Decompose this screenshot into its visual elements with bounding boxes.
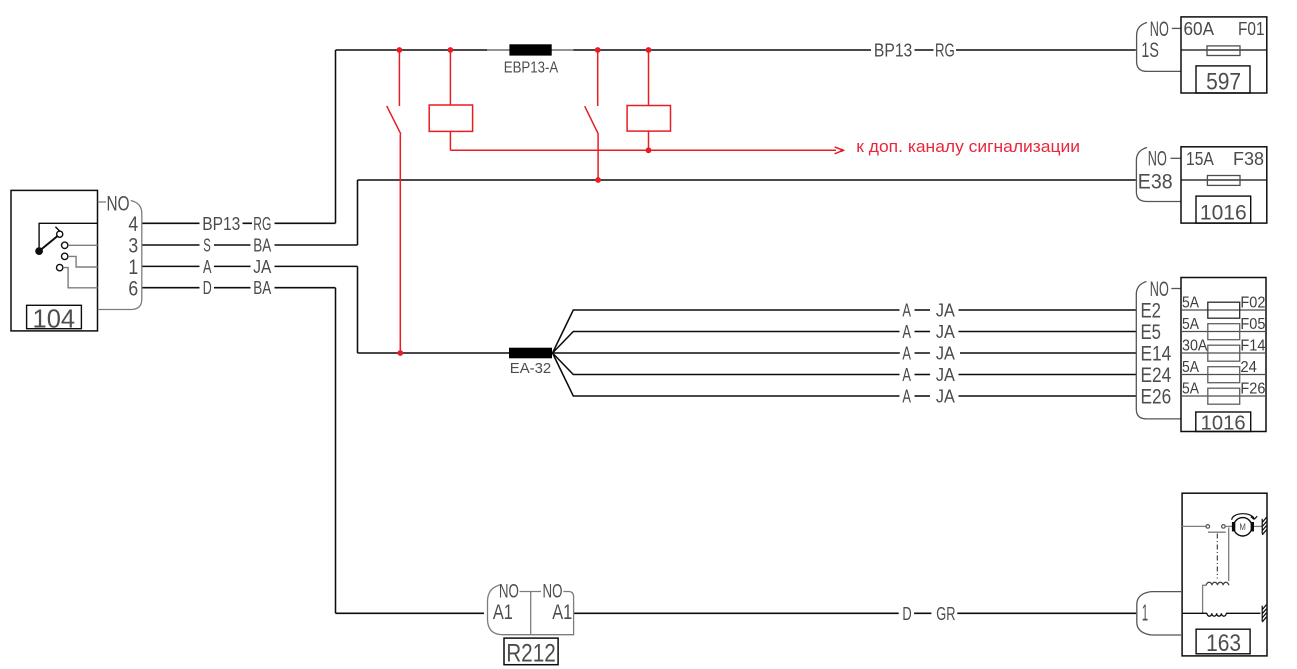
svg-text:JA: JA xyxy=(936,322,955,342)
connector NO of 104 xyxy=(98,193,142,310)
svg-text:JA: JA xyxy=(936,301,955,321)
motor brush right xyxy=(1251,522,1254,531)
junction dots red on top feed xyxy=(397,47,844,356)
arrow tip dot xyxy=(840,149,843,152)
svg-text:E2: E2 xyxy=(1141,300,1162,323)
fuse ratings xyxy=(1182,294,1208,397)
wire red bus to alarm channel xyxy=(450,149,836,151)
switch blade xyxy=(39,236,58,252)
wire fan E2 xyxy=(553,310,1137,353)
switch striker tick xyxy=(55,227,60,232)
thermal contact bar xyxy=(1208,531,1226,533)
feed wire to contact xyxy=(1182,525,1206,527)
connector pair R212 xyxy=(488,581,574,668)
elbow wire contact to row1 xyxy=(68,256,98,267)
svg-text:JA: JA xyxy=(253,257,271,277)
relay coil 2 box xyxy=(627,106,670,132)
coil link down xyxy=(1203,585,1207,613)
svg-text:JA: JA xyxy=(936,387,955,407)
fusebox 1016 (five fuses) xyxy=(1181,278,1266,435)
wire D-BA pin6 row xyxy=(142,287,336,289)
contact circle row6 xyxy=(57,264,63,270)
wire labels A-JA x5 xyxy=(902,301,955,407)
svg-text:F05: F05 xyxy=(1240,316,1265,333)
switch blade alarm 2 xyxy=(585,106,599,134)
svg-text:JA: JA xyxy=(936,344,955,364)
svg-text:5A: 5A xyxy=(1182,380,1200,397)
label box R212 xyxy=(504,638,558,665)
wire red drop 4 (relay coil 2) xyxy=(648,50,650,106)
svg-text:BA: BA xyxy=(253,278,271,298)
field coil lower xyxy=(1207,613,1226,616)
fuse 24 xyxy=(1208,367,1240,383)
switch blade tip circle xyxy=(57,231,63,237)
svg-text:5A: 5A xyxy=(1182,316,1200,333)
svg-text:E14: E14 xyxy=(1141,343,1172,366)
wire labels left rows xyxy=(202,214,271,298)
fuse names xyxy=(1240,294,1265,397)
svg-text:A: A xyxy=(902,387,911,407)
wire labels bottom D-GR xyxy=(902,604,955,624)
wire S-BA pin3 row xyxy=(142,244,358,246)
svg-text:F14: F14 xyxy=(1240,337,1265,354)
wire below switch 2 down to S-BA line xyxy=(597,134,599,180)
wire coil 2 to red bus xyxy=(648,131,650,150)
wire top feed line BP13-RG xyxy=(336,49,1136,51)
wire fan E14 xyxy=(553,352,1137,354)
svg-text:104: 104 xyxy=(33,304,76,334)
junction dot red bus / coil2 xyxy=(646,147,652,153)
connector 1S of fusebox 597 xyxy=(1137,18,1181,72)
field coil upper xyxy=(1206,582,1228,585)
arrowhead to alarm channel xyxy=(835,147,844,154)
svg-text:E5: E5 xyxy=(1141,321,1162,344)
wire mid line S-BA to E38 xyxy=(358,179,1136,181)
svg-text:3: 3 xyxy=(128,235,138,258)
svg-text:A: A xyxy=(902,322,911,342)
svg-text:1: 1 xyxy=(1142,599,1148,625)
wire labels top BP13-RG xyxy=(874,41,955,61)
label gaps on fan rows (white covers under labels) xyxy=(900,304,959,402)
fusebox 1016 (F38) xyxy=(1181,147,1267,225)
wire bottom D-GR line right of R212 xyxy=(574,612,1136,614)
wire pin6 drop xyxy=(335,288,337,614)
bottom wire in box xyxy=(1182,612,1260,614)
svg-text:к доп. каналу сигнализации: к доп. каналу сигнализации xyxy=(856,138,1080,156)
motor unit 163 box xyxy=(1182,493,1267,657)
svg-text:NO: NO xyxy=(1148,148,1167,171)
wire BP13-RG pin4 row xyxy=(142,222,336,224)
label box 163 xyxy=(1196,629,1250,654)
ground lower xyxy=(1262,605,1266,623)
wire below switch 1 down to A-JA trunk xyxy=(399,134,401,353)
svg-text:30A: 30A xyxy=(1182,337,1208,354)
svg-text:D: D xyxy=(902,604,911,624)
connector E2/E5/E14/E24/E26 of fusebox 1016 xyxy=(1136,278,1181,419)
rotation arc xyxy=(1232,514,1257,520)
svg-text:BP13: BP13 xyxy=(874,41,912,61)
svg-text:1S: 1S xyxy=(1141,39,1159,62)
fuse F02 xyxy=(1208,302,1240,318)
switch blade alarm 1 xyxy=(387,106,401,134)
svg-text:1016: 1016 xyxy=(1201,413,1246,435)
left connector shell A1 xyxy=(488,585,531,635)
svg-text:S: S xyxy=(203,236,211,256)
svg-text:NO: NO xyxy=(107,193,130,216)
svg-text:A: A xyxy=(902,344,911,364)
wire E5 label segment xyxy=(915,331,931,333)
fuse F26 xyxy=(1208,388,1240,404)
svg-text:EBP13-A: EBP13-A xyxy=(504,59,559,76)
brush to ground wire xyxy=(1254,525,1262,527)
svg-text:A: A xyxy=(203,257,212,277)
svg-text:F38: F38 xyxy=(1233,149,1264,169)
svg-text:RG: RG xyxy=(253,214,271,234)
switch contact feed wire xyxy=(39,223,98,247)
svg-text:A: A xyxy=(902,365,911,385)
wire fan E5 xyxy=(553,332,1137,354)
connector E38 of fusebox 1016 xyxy=(1136,148,1181,202)
svg-text:NO: NO xyxy=(499,581,519,603)
fuse F01 xyxy=(1207,46,1240,56)
svg-text:E24: E24 xyxy=(1141,364,1172,387)
wire red drop 1 (alarm switch 1) xyxy=(398,50,400,106)
svg-text:NO: NO xyxy=(1150,18,1169,41)
wire A-JA pin1 row xyxy=(142,265,358,267)
wire red drop 3 (alarm switch 2) xyxy=(597,50,599,106)
svg-text:M: M xyxy=(1239,522,1246,533)
wire coil 1 to red bus xyxy=(449,131,451,150)
svg-text:D: D xyxy=(203,278,212,298)
contact circle left xyxy=(1206,525,1210,529)
ground upper xyxy=(1262,517,1266,535)
svg-text:163: 163 xyxy=(1206,630,1241,657)
splice EBP13-A xyxy=(487,44,573,76)
svg-text:597: 597 xyxy=(1206,68,1241,95)
svg-text:5A: 5A xyxy=(1182,294,1200,311)
svg-text:1: 1 xyxy=(128,256,138,279)
wire E24 label segment xyxy=(915,374,931,376)
relay coil 1 box xyxy=(429,105,472,131)
svg-text:24: 24 xyxy=(1240,359,1257,376)
svg-text:A: A xyxy=(902,301,911,321)
wire pin1 drop xyxy=(357,266,359,353)
contact circle right xyxy=(1222,525,1226,529)
svg-text:GR: GR xyxy=(936,604,955,624)
switch pivot dot xyxy=(35,247,43,255)
contact circle row1 xyxy=(61,253,67,259)
elbow wire contact to row3 xyxy=(68,244,98,246)
svg-text:RG: RG xyxy=(935,41,955,61)
right connector shell A1 xyxy=(531,592,574,635)
svg-text:BA: BA xyxy=(253,236,271,256)
fuse F05 xyxy=(1208,324,1240,340)
svg-text:1016: 1016 xyxy=(1200,202,1247,225)
motor brush left xyxy=(1232,522,1235,531)
svg-text:4: 4 xyxy=(128,213,138,236)
divider / fuse wire xyxy=(1181,179,1267,181)
splice EA-32 xyxy=(509,348,552,378)
wire E26 label segment xyxy=(915,395,931,397)
svg-text:NO: NO xyxy=(1150,278,1169,301)
svg-text:15A: 15A xyxy=(1186,149,1214,169)
wire pin4 riser to top feed xyxy=(335,50,337,223)
svg-text:E38: E38 xyxy=(1138,171,1173,194)
component 104 key switch box xyxy=(11,190,98,333)
svg-text:E26: E26 xyxy=(1141,386,1172,409)
label box 1016 xyxy=(1196,412,1251,432)
wire A-JA trunk to splice EA-32 xyxy=(358,352,510,354)
wire fan E24 xyxy=(553,353,1137,375)
svg-text:F02: F02 xyxy=(1240,294,1265,311)
svg-text:60A: 60A xyxy=(1184,19,1215,39)
svg-text:EA-32: EA-32 xyxy=(510,360,551,377)
svg-text:A1: A1 xyxy=(493,601,513,624)
label box 104 xyxy=(27,305,82,328)
center link and tee xyxy=(520,592,542,635)
wire brush branch down to field coil xyxy=(1228,528,1230,582)
divider / fuse wire xyxy=(1181,49,1267,51)
connector 1 of motor unit 163 xyxy=(1137,592,1181,635)
wire E2 label segment xyxy=(915,309,931,311)
fuse F14 xyxy=(1208,345,1240,361)
connector bracket xyxy=(98,201,142,310)
svg-text:BP13: BP13 xyxy=(202,214,240,234)
svg-text:F26: F26 xyxy=(1240,380,1265,397)
svg-text:6: 6 xyxy=(128,277,138,300)
wire bottom D-GR line left of R212 xyxy=(336,612,485,614)
fuse F38 xyxy=(1207,176,1240,186)
svg-text:5A: 5A xyxy=(1182,359,1200,376)
svg-text:R212: R212 xyxy=(506,639,556,667)
junction dot switch1 / A-JA trunk xyxy=(397,350,403,356)
dash-dot link xyxy=(1216,534,1218,579)
fusebox 597 xyxy=(1181,17,1267,95)
svg-text:F01: F01 xyxy=(1238,19,1265,39)
motor M circle xyxy=(1234,518,1252,536)
row dividers xyxy=(1181,310,1266,396)
contact circle row3 xyxy=(61,242,67,248)
junction dot switch2 / S-BA line xyxy=(595,177,601,183)
wire pin3 riser xyxy=(357,180,359,245)
contact to motor brush wire xyxy=(1225,525,1232,527)
svg-text:A1: A1 xyxy=(552,601,572,624)
wire fan E26 xyxy=(553,353,1137,396)
svg-text:JA: JA xyxy=(936,365,955,385)
label box 597 xyxy=(1196,66,1250,93)
wire red drop 2 (relay coil 1) xyxy=(449,50,451,105)
svg-text:NO: NO xyxy=(543,581,563,603)
label box 1016 xyxy=(1196,196,1251,223)
elbow wire contact to row6 xyxy=(63,268,98,288)
